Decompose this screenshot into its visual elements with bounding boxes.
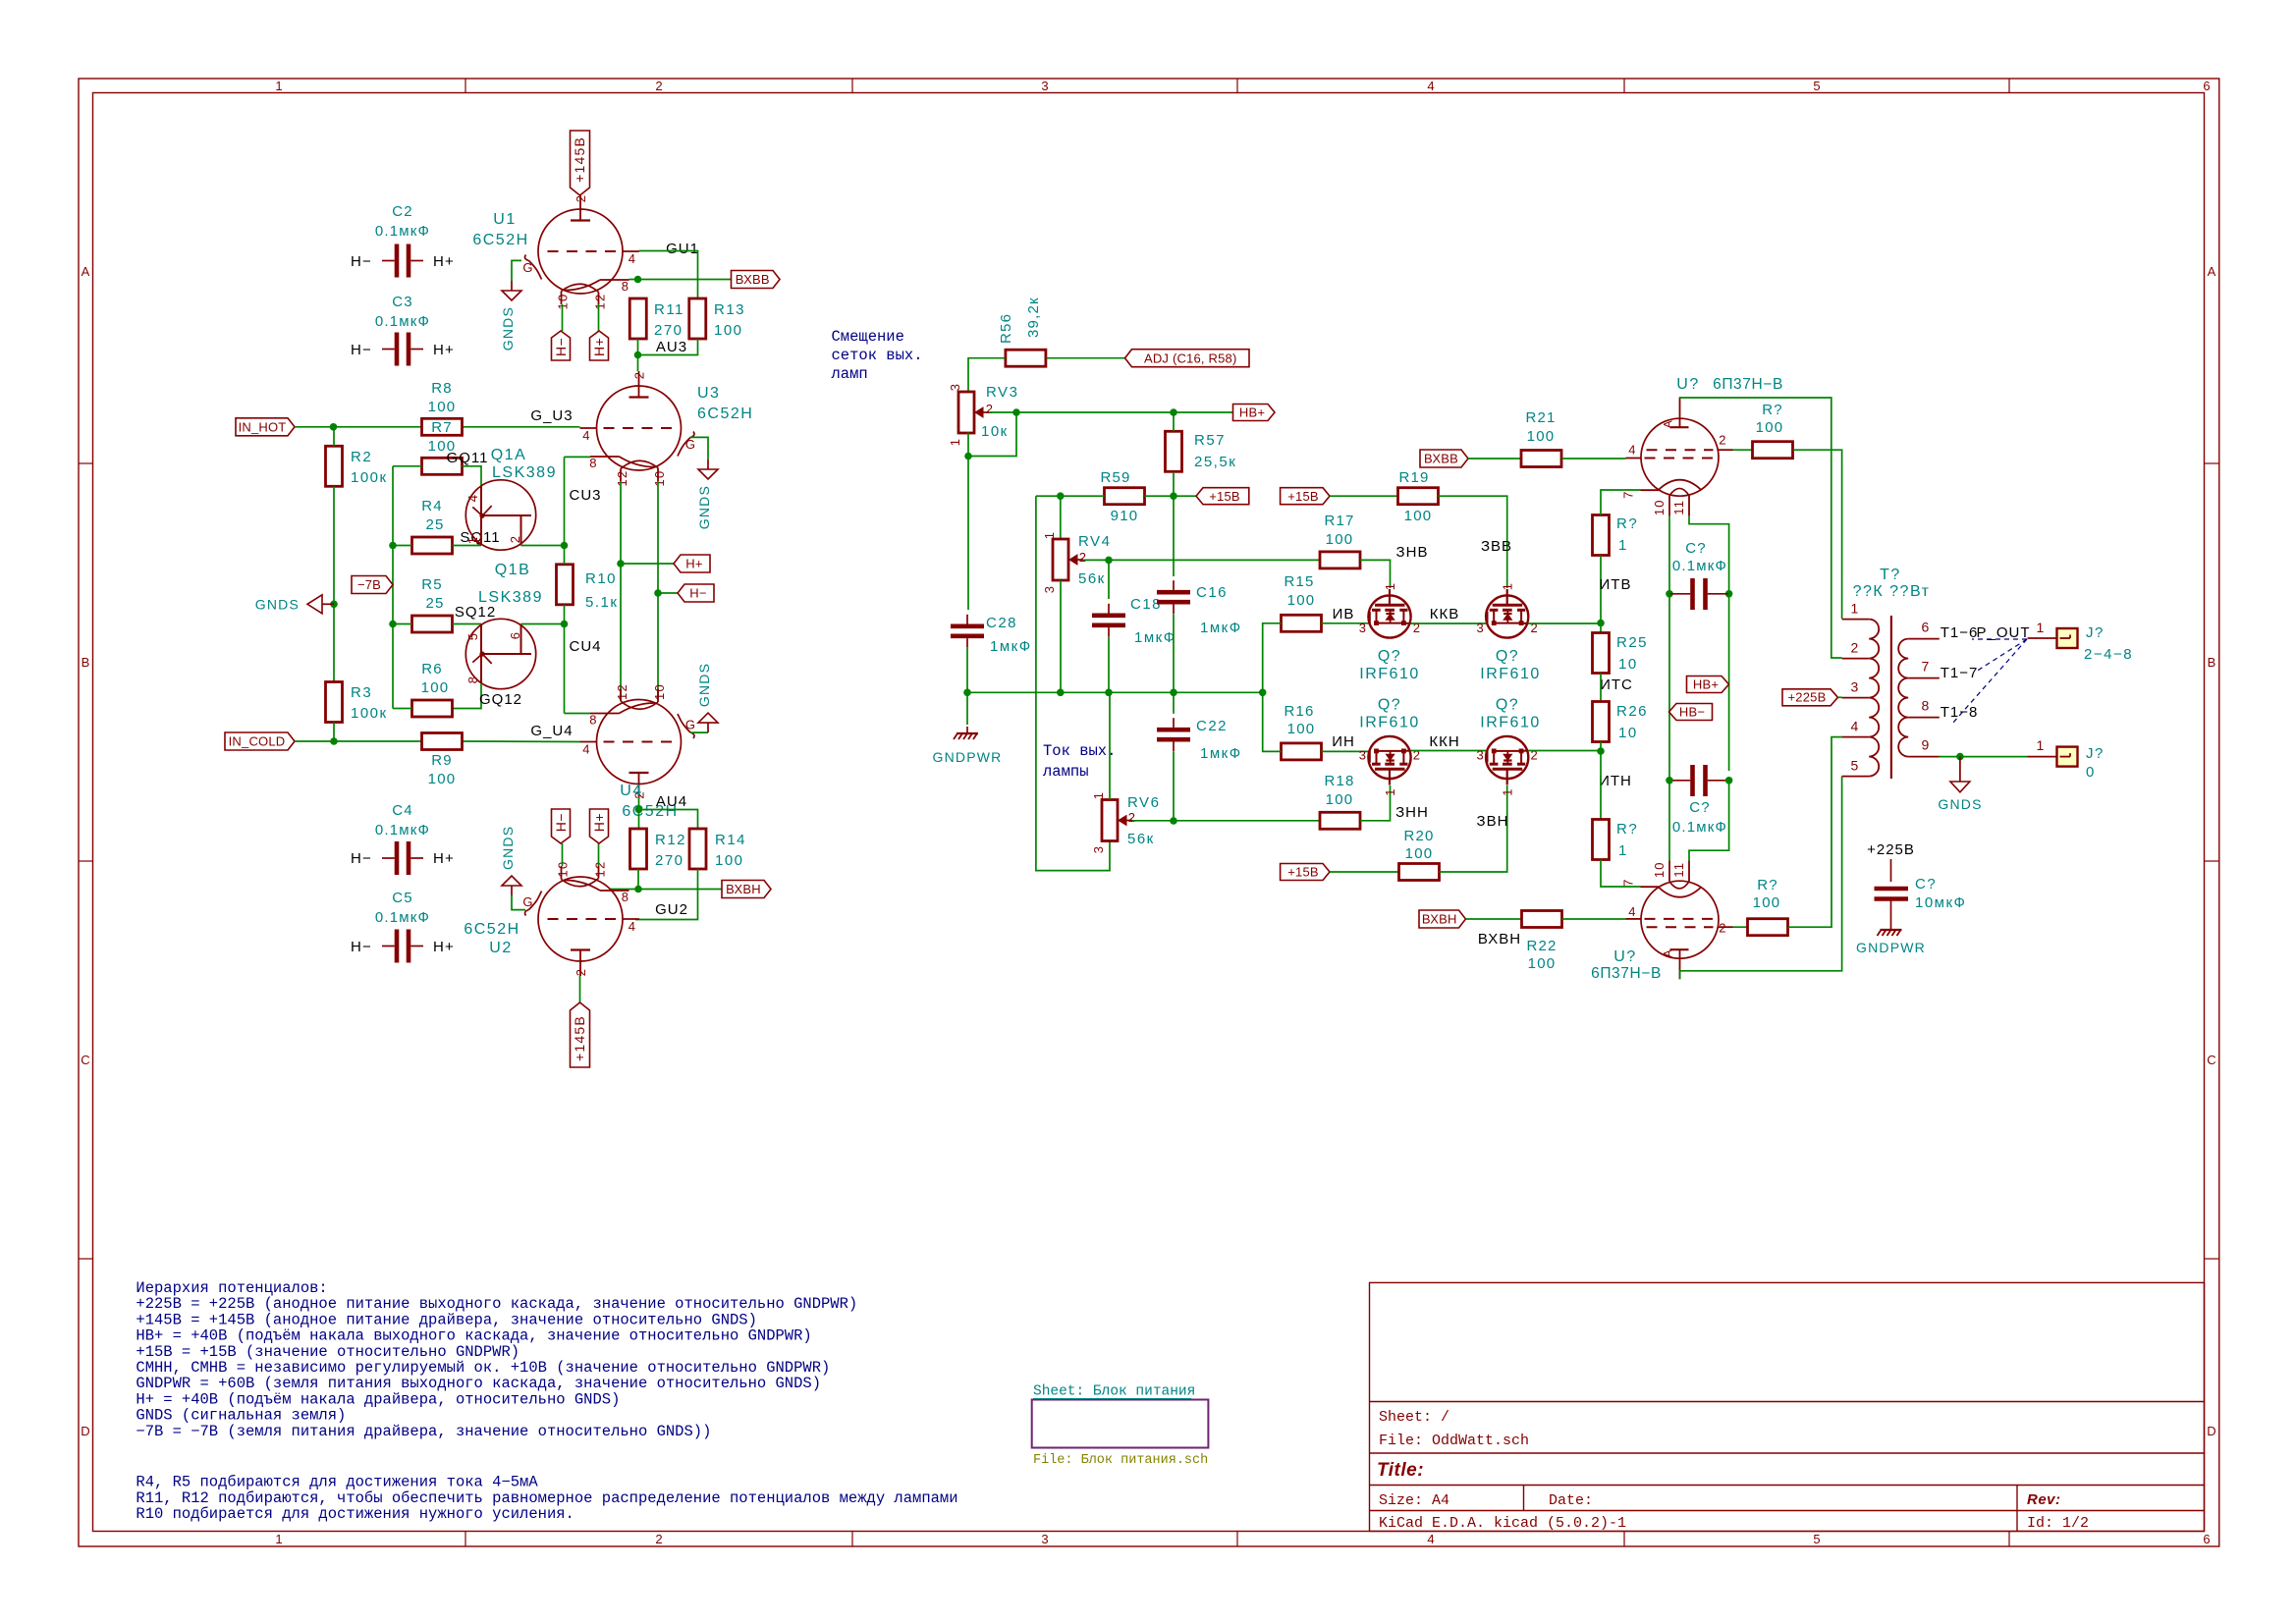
power flag +15V lower row [1281, 864, 1330, 881]
svg-text:0.1мкФ: 0.1мкФ [375, 909, 430, 926]
svg-text:Q?: Q? [1378, 697, 1401, 714]
wire R19 to ZVV mosfet drain [1439, 496, 1507, 588]
wire RV6 top to rail [1109, 692, 1111, 799]
svg-text:File: Блок питания.sch: File: Блок питания.sch [1033, 1453, 1208, 1468]
svg-text:3: 3 [1359, 748, 1367, 763]
wire R?1 bottom to ITV junction [1600, 556, 1602, 623]
svg-text:C: C [2207, 1053, 2215, 1067]
svg-text:R18: R18 [1324, 773, 1354, 789]
svg-text:10мкФ: 10мкФ [1915, 894, 1966, 911]
wire rail to R5 [393, 623, 412, 625]
transformer secondary pins [1908, 638, 1940, 640]
svg-text:7: 7 [1621, 490, 1636, 498]
wire RV3 bottom feedback loop [968, 412, 1016, 457]
wire R26 bottom to ITN junction [1600, 742, 1602, 752]
resistor R16 [1282, 743, 1322, 760]
svg-text:Title:: Title: [1377, 1460, 1424, 1481]
svg-text:H+: H+ [433, 253, 455, 270]
svg-text:1: 1 [465, 536, 480, 544]
junction RV3 wiper loop [1012, 408, 1020, 416]
junction IN_HOT R2 [330, 423, 338, 431]
svg-text:GNDS: GNDS [500, 826, 516, 870]
svg-text:B: B [2208, 655, 2216, 670]
svg-text:IN_COLD: IN_COLD [229, 734, 286, 749]
svg-text:10: 10 [1618, 656, 1638, 673]
svg-text:1: 1 [1501, 582, 1515, 590]
svg-text:Q1A: Q1A [491, 447, 527, 463]
wire RV4 wiper to R17 [1083, 559, 1320, 561]
svg-text:10: 10 [1652, 499, 1667, 515]
svg-text:2: 2 [986, 402, 994, 416]
junction R57 top [1170, 408, 1177, 416]
svg-text:100: 100 [1405, 845, 1434, 862]
svg-text:6: 6 [2203, 79, 2210, 93]
tube U1 6C52H [538, 209, 623, 294]
potentiometer RV4 [1053, 539, 1068, 580]
svg-text:ИВ: ИВ [1333, 606, 1355, 622]
wire rail to R15 [1263, 623, 1282, 693]
svg-text:2: 2 [574, 968, 588, 976]
junction rail mosfet sources [1259, 689, 1267, 697]
svg-text:Date:: Date: [1549, 1492, 1593, 1509]
wire lower right source to ITN rail [1528, 750, 1601, 752]
svg-text:5: 5 [1851, 758, 1860, 774]
svg-text:+15В: +15В [1287, 489, 1319, 504]
svg-text:1: 1 [1851, 601, 1860, 617]
wire upper g2 through R? to transformer pin 1 [1733, 449, 1753, 451]
svg-text:R6: R6 [421, 661, 443, 677]
svg-text:R?: R? [1616, 821, 1638, 838]
svg-text:3: 3 [948, 383, 962, 391]
junction heater cap left lower [1666, 777, 1673, 784]
svg-text:G: G [685, 718, 696, 732]
svg-text:2−4−8: 2−4−8 [2084, 646, 2133, 663]
svg-text:3: 3 [1476, 748, 1484, 763]
resistor R? 100 anode-stopper upper [1753, 442, 1793, 459]
global label BXBB right [1420, 450, 1468, 467]
svg-text:HB+: HB+ [1239, 406, 1265, 420]
svg-text:A: A [2208, 264, 2216, 279]
svg-text:ВХВВ: ВХВВ [1424, 452, 1458, 466]
svg-text:R?: R? [1762, 402, 1783, 418]
svg-text:2: 2 [1079, 550, 1087, 565]
svg-text:ЗНВ: ЗНВ [1396, 544, 1429, 561]
mosfet Q? IRF610 upper right ZVV [1486, 595, 1528, 637]
svg-text:4: 4 [629, 919, 636, 934]
capacitor C16 [1157, 590, 1190, 595]
resistor R22 [1522, 911, 1562, 928]
heater jog to lower tube pin 11 [1689, 781, 1729, 861]
svg-text:ВХВН: ВХВН [726, 882, 761, 896]
junction H- [654, 589, 662, 597]
svg-text:4: 4 [1427, 1532, 1434, 1546]
svg-text:100: 100 [1527, 428, 1556, 445]
svg-text:5: 5 [1813, 1532, 1820, 1546]
JFET Q1B LSK389 [465, 619, 535, 688]
global label BXBH right [1419, 910, 1466, 928]
svg-text:ИТС: ИТС [1600, 676, 1633, 693]
wire R20 to ZVN mosfet drain [1440, 785, 1507, 872]
wire Q1A drain to CU3 junction [521, 545, 565, 547]
wire Q1B drain to CU4 junction [521, 623, 565, 625]
svg-text:C2: C2 [392, 203, 413, 220]
JFET Q1A LSK389 [465, 480, 535, 550]
junction H+ [617, 560, 625, 568]
svg-text:G: G [685, 437, 696, 452]
svg-text:56к: 56к [1078, 570, 1106, 587]
svg-text:6С52Н: 6С52Н [472, 232, 528, 248]
dashed link lines to output connector [1972, 638, 2027, 640]
svg-text:2: 2 [655, 1532, 662, 1546]
resistor R? 100 lower [1748, 919, 1788, 936]
svg-text:D: D [81, 1424, 89, 1438]
connector J? pin wire [2028, 637, 2057, 639]
resistor R26 [1593, 702, 1610, 742]
resistor R11 [629, 298, 646, 339]
svg-text:R11, R12 подбираются, чтобы об: R11, R12 подбираются, чтобы обеспечить р… [136, 1489, 957, 1507]
svg-text:ЗВВ: ЗВВ [1481, 538, 1512, 555]
svg-text:8: 8 [622, 279, 629, 294]
svg-text:100: 100 [1287, 721, 1316, 737]
svg-text:RV3: RV3 [986, 384, 1018, 401]
junction pin9 ground tap [1956, 753, 1964, 761]
capacitor C18 [1092, 613, 1125, 618]
svg-text:C3: C3 [392, 294, 413, 310]
svg-text:A: A [82, 264, 90, 279]
resistor R14 [689, 829, 706, 869]
junction +15V C16 [1170, 492, 1177, 500]
resistor R3 [326, 682, 343, 723]
svg-text:U?: U? [1676, 376, 1699, 393]
wire BXBH to R22 [1466, 918, 1522, 920]
svg-text:G: G [522, 260, 533, 275]
wire C16 between +15V and rail [1173, 496, 1175, 576]
svg-text:AU4: AU4 [656, 793, 687, 810]
svg-text:AU3: AU3 [656, 339, 687, 355]
svg-text:100: 100 [714, 322, 743, 339]
wire rail to R6 [393, 708, 412, 710]
resistor R5 [412, 616, 453, 632]
svg-text:25: 25 [425, 516, 444, 533]
svg-text:T1−7: T1−7 [1941, 665, 1979, 681]
wire C28 to GNDPWR rail [966, 648, 968, 692]
svg-text:R?: R? [1616, 515, 1638, 532]
svg-text:R2: R2 [351, 449, 372, 465]
svg-text:IRF610: IRF610 [1480, 715, 1540, 731]
resistor R15 [1282, 615, 1322, 631]
title block vertical dividers [1523, 1486, 1525, 1511]
svg-text:3: 3 [1851, 679, 1860, 695]
svg-text:R20: R20 [1403, 828, 1434, 844]
wire R7 to U3 grid [463, 426, 580, 428]
capacitor C4 [395, 841, 400, 875]
svg-text:ИН: ИН [1332, 733, 1355, 750]
wire R16 to mosfet gate [1322, 750, 1369, 752]
resistor R59 [1105, 488, 1145, 505]
svg-text:C: C [81, 1053, 89, 1067]
heater rail pin12 U3-U4 with H+ tap [620, 481, 622, 699]
power flag +145V top [571, 131, 590, 195]
wire C22 bottom to RV6 wiper junction [1173, 751, 1175, 821]
svg-text:IN_HOT: IN_HOT [239, 420, 287, 435]
wire GQ11 resistor to Q1A gate [463, 466, 482, 486]
svg-text:+225В: +225В [1788, 690, 1827, 705]
label -7B bordered [352, 576, 393, 594]
svg-text:U?: U? [1613, 948, 1636, 965]
tube U2 6C52H [538, 877, 623, 961]
svg-text:U1: U1 [493, 211, 516, 228]
junction rail C16 C22 [1170, 689, 1177, 697]
wire R56 left to RV3 [968, 358, 1006, 392]
power flag H+ (U1) [590, 331, 609, 360]
svg-text:4: 4 [1851, 719, 1860, 734]
svg-text:6С52Н: 6С52Н [464, 921, 519, 938]
svg-text:R15: R15 [1284, 573, 1314, 590]
svg-text:3: 3 [1359, 621, 1367, 635]
ground rail horizontal [967, 691, 1263, 693]
wire C28 to GNDPWR symbol [966, 692, 968, 725]
svg-text:270: 270 [655, 852, 684, 869]
ground GNDS for U1 grid [511, 281, 513, 291]
svg-text:100: 100 [1528, 955, 1557, 972]
svg-text:12: 12 [593, 294, 608, 310]
wire R21 to upper tube grid [1562, 458, 1626, 460]
svg-text:1: 1 [1618, 842, 1628, 859]
svg-text:4: 4 [582, 428, 590, 443]
svg-text:SQ12: SQ12 [455, 604, 496, 621]
svg-text:0.1мкФ: 0.1мкФ [375, 822, 430, 839]
svg-text:910: 910 [1111, 508, 1139, 524]
ladder left rail -7B [393, 465, 422, 467]
svg-text:0.1мкФ: 0.1мкФ [1672, 819, 1727, 836]
U1 grid-cap wire to ground [512, 260, 521, 281]
wire R5 to Q1B [453, 623, 482, 625]
wire U4 anode to AU4 [638, 797, 640, 810]
svg-text:2: 2 [1719, 433, 1726, 448]
wire R57 bottom to +15V junction [1173, 472, 1175, 497]
wire R57 top [1173, 412, 1175, 431]
svg-text:LSK389: LSK389 [478, 589, 543, 606]
svg-text:KiCad E.D.A. kicad (5.0.2)-1: KiCad E.D.A. kicad (5.0.2)-1 [1379, 1515, 1626, 1532]
svg-text:H−: H− [351, 939, 372, 955]
wire secondary pin 9 to connector J? 0 [1939, 756, 2027, 758]
wire RV4 bottom to rail [1060, 580, 1062, 692]
svg-text:0: 0 [2086, 764, 2096, 781]
wire lower R?1 to lower tube cathode pin7 [1601, 860, 1641, 888]
svg-text:??К ??Вт: ??К ??Вт [1853, 583, 1931, 600]
svg-text:R59: R59 [1100, 469, 1130, 486]
power flag H- (U1) [552, 331, 571, 360]
svg-text:11: 11 [1671, 862, 1686, 878]
svg-text:100: 100 [1326, 531, 1354, 548]
svg-text:R10 подбирается для достижения: R10 подбирается для достижения нужного у… [136, 1505, 574, 1523]
junction AU3 [634, 352, 642, 359]
svg-text:6П37Н−В: 6П37Н−В [1591, 965, 1662, 982]
svg-text:10: 10 [1618, 725, 1638, 741]
resistor R25 [1593, 633, 1610, 674]
svg-text:GNDS: GNDS [255, 596, 300, 612]
wire KKN between mosfets [1411, 750, 1486, 752]
wire C22 between rail and RV6 wiper line [1173, 692, 1175, 714]
svg-text:U3: U3 [697, 385, 720, 402]
svg-text:Q?: Q? [1496, 697, 1519, 714]
svg-text:GNDS: GNDS [696, 485, 712, 529]
svg-text:A: A [1662, 948, 1675, 957]
wire +15V to R19 [1330, 495, 1398, 497]
svg-text:R11: R11 [654, 301, 684, 318]
svg-text:Rev:: Rev: [2027, 1491, 2061, 1508]
svg-text:R3: R3 [351, 684, 372, 701]
svg-text:1: 1 [1042, 531, 1057, 539]
svg-text:1: 1 [1383, 787, 1397, 795]
svg-text:8: 8 [622, 890, 629, 904]
svg-text:1мкФ: 1мкФ [1200, 745, 1242, 762]
svg-text:2: 2 [574, 194, 588, 202]
svg-text:ККН: ККН [1429, 733, 1459, 750]
svg-text:R25: R25 [1616, 634, 1648, 651]
junction RV4 top [1057, 492, 1065, 500]
svg-text:Id: 1/2: Id: 1/2 [2027, 1515, 2089, 1532]
svg-text:2: 2 [632, 371, 647, 379]
wire +225V to pin3 [1838, 696, 1842, 698]
svg-text:4: 4 [1427, 79, 1434, 93]
power flag H- (U2) [552, 809, 571, 843]
resistor R6 GQ12 ladder bottom [412, 700, 453, 717]
wire R3 to IN_COLD [333, 723, 335, 742]
global label IN_COLD [225, 732, 295, 750]
svg-text:C?: C? [1685, 540, 1707, 557]
potentiometer RV6 [1102, 800, 1118, 841]
capacitor C2 [395, 244, 400, 278]
svg-text:R22: R22 [1526, 938, 1557, 954]
wire U2 cathode to BXBH flag [610, 889, 723, 891]
heater rail right pin11 upper tube [1689, 516, 1729, 594]
U1 heater wires to H flags [562, 304, 564, 331]
capacitor C22 [1157, 728, 1190, 732]
junction ground rail left [963, 689, 971, 697]
svg-text:Q1B: Q1B [495, 562, 531, 578]
hierarchical sheet block power supply [1032, 1400, 1209, 1448]
svg-text:10: 10 [1652, 861, 1667, 878]
svg-text:GU1: GU1 [666, 241, 699, 257]
junction GNDS tap [330, 601, 338, 609]
svg-text:25: 25 [425, 595, 444, 612]
resistor R19 [1398, 488, 1439, 505]
svg-text:ламп: ламп [832, 365, 868, 383]
wire GU1 grid of U1 to R13 [639, 251, 698, 299]
svg-text:56к: 56к [1127, 831, 1155, 847]
svg-text:4: 4 [582, 742, 590, 757]
wire CU3 to U3 cathode [565, 456, 591, 458]
svg-text:R13: R13 [714, 301, 745, 318]
svg-text:R4: R4 [421, 498, 443, 514]
svg-text:CU3: CU3 [569, 487, 601, 504]
svg-text:1: 1 [2037, 620, 2046, 635]
svg-text:7: 7 [1621, 878, 1636, 886]
resistor R7 with R8 stacked [422, 418, 463, 435]
svg-text:H−: H− [351, 342, 372, 358]
svg-text:LSK389: LSK389 [492, 464, 557, 481]
resistor R21 [1521, 451, 1561, 467]
resistor R13 [689, 298, 706, 339]
svg-text:R4, R5 подбираются для достиже: R4, R5 подбираются для достижения тока 4… [136, 1474, 538, 1491]
ground GNDS for U3 grid cap [690, 437, 708, 460]
svg-text:ЗНН: ЗНН [1395, 804, 1429, 821]
svg-text:C28: C28 [986, 615, 1017, 631]
svg-text:3: 3 [1476, 621, 1484, 635]
wire lower g2 to R? 100 lower [1733, 926, 1748, 928]
junction IN_COLD R3 [330, 737, 338, 745]
frame column ticks bottom [465, 1532, 466, 1547]
svg-text:100к: 100к [351, 469, 388, 486]
ground GNDPWR left [966, 727, 968, 732]
svg-text:R?: R? [1757, 877, 1778, 893]
wire R14 to GU2 to U2 grid [635, 869, 698, 920]
svg-text:1мкФ: 1мкФ [1134, 629, 1176, 646]
svg-text:R10: R10 [585, 570, 617, 587]
svg-text:1мкФ: 1мкФ [990, 638, 1032, 655]
power flag HB+ to heater lift [1233, 405, 1276, 421]
wire R?1 to upper tube cathode pin7 [1601, 490, 1641, 515]
capacitor C3 [395, 333, 400, 366]
heater rail left continues to lower tube [1668, 594, 1670, 861]
wire R12 to U2 cathode junction [637, 869, 639, 890]
wire C18 bottom to rail [1108, 637, 1110, 692]
svg-text:1: 1 [2037, 737, 2046, 753]
wire upper right source to ITV rail [1528, 622, 1601, 624]
ITV rail resistor R? 1 ohm upper [1593, 515, 1610, 556]
svg-text:25,5к: 25,5к [1194, 454, 1236, 470]
svg-text:H−: H− [553, 813, 569, 832]
heater rail pin10 U3-U4 with H- tap [657, 481, 659, 699]
svg-text:H+: H+ [591, 338, 607, 356]
svg-text:T1−8: T1−8 [1941, 704, 1979, 721]
svg-text:ВХВН: ВХВН [1422, 912, 1457, 927]
junction AU4 [635, 806, 643, 814]
svg-text:12: 12 [615, 683, 629, 700]
wire R15 to mosfet gate [1322, 622, 1369, 624]
svg-text:GQ12: GQ12 [479, 691, 522, 708]
svg-text:H+: H+ [433, 939, 455, 955]
svg-text:6: 6 [1922, 620, 1931, 635]
svg-text:GNDS: GNDS [1938, 796, 1982, 812]
junction RV4 wiper C18 [1105, 557, 1113, 565]
svg-text:H+: H+ [433, 342, 455, 358]
U2 grid-cap ground [512, 895, 525, 910]
svg-text:12: 12 [593, 861, 608, 878]
wire lower anode to transformer pin 5 [1680, 777, 1842, 980]
svg-text:100: 100 [428, 399, 457, 415]
svg-text:R19: R19 [1398, 469, 1429, 486]
svg-text:H+: H+ [685, 557, 702, 571]
svg-text:C?: C? [1689, 799, 1711, 816]
svg-text:100: 100 [421, 679, 450, 696]
svg-text:R12: R12 [655, 832, 686, 848]
junction rail C18 [1105, 689, 1113, 697]
svg-text:лампы: лампы [1043, 763, 1089, 781]
svg-text:IRF610: IRF610 [1480, 666, 1540, 682]
wire RV6 wiper to R18 [1132, 820, 1320, 822]
svg-text:1: 1 [275, 1532, 282, 1546]
svg-text:Смещение: Смещение [832, 328, 904, 346]
svg-text:T?: T? [1880, 567, 1901, 583]
svg-text:+225В: +225В [1867, 841, 1915, 858]
power flag HB- tap [1669, 704, 1713, 721]
svg-text:2: 2 [655, 79, 662, 93]
connector J? zero [2057, 747, 2078, 767]
heater rail right continues [1728, 594, 1730, 771]
svg-text:Size: A4: Size: A4 [1379, 1492, 1449, 1509]
